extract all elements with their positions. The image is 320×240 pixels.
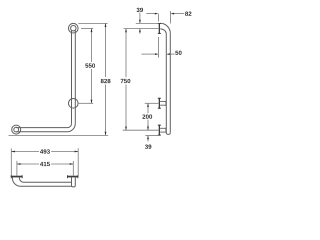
bend outer arc [67, 124, 75, 132]
dim line 39 top shaft lower [139, 29, 141, 34]
arrow 828 down [105, 132, 107, 136]
arrow 39 top down [139, 20, 141, 24]
vertical bar right edge wire [74, 30, 76, 123]
bracket1 clamp edge [165, 101, 167, 106]
dim line 750 upper [125, 29, 127, 77]
dim line 550 upper [91, 29, 93, 63]
left flange outer circle [12, 125, 21, 134]
extension line L2 flange center level [124, 28, 159, 30]
top flange inner circle [71, 26, 76, 31]
label 39 bottom [145, 145, 151, 149]
label 828 [101, 79, 111, 83]
side bar inner bend arc [160, 29, 166, 34]
dim line 415 right [51, 163, 73, 165]
label 50 [175, 51, 181, 55]
top flange outer circle [69, 23, 79, 33]
side bar right edge wire [169, 33, 171, 132]
extension line L1 bar top level [136, 22, 159, 24]
bracket2 stem top [160, 127, 166, 129]
arrow 39 top up [139, 29, 141, 33]
horizontal bar bottom edge [16, 131, 67, 133]
dim line 828 lower [105, 85, 107, 136]
dim line 200 lower [147, 120, 149, 131]
top flange plate side [159, 23, 160, 34]
label 550 [85, 63, 95, 67]
bracket2 plate [159, 125, 160, 136]
top view bar inner bend [19, 178, 71, 183]
top view left plate [11, 176, 23, 178]
dim line 550 lower [91, 69, 93, 103]
arrow 493 left [11, 151, 15, 153]
arrow 750 up [125, 29, 127, 33]
bracket2 clamp edge [165, 128, 167, 133]
arrow 550 up [91, 29, 93, 33]
horizontal bar top edge [16, 127, 67, 129]
dim line 50 left shaft [142, 53, 156, 55]
arrow 750 down [125, 127, 127, 131]
dim line 415 left [17, 163, 39, 165]
label 750 [121, 79, 131, 83]
bracket1 plate [159, 98, 160, 109]
label 82 [185, 12, 191, 16]
dim line 828 upper [105, 23, 107, 77]
dim line 82 left shaft [146, 13, 155, 15]
dim line 750 lower [125, 85, 127, 131]
mid bracket circle [69, 99, 79, 109]
dim line 493 right [51, 151, 78, 153]
extension line 750/200 bottom [123, 129, 159, 131]
side bar left edge wire [165, 34, 167, 133]
side bar bottom cap [166, 133, 170, 135]
label 39 top [137, 8, 143, 12]
top view stub outline [72, 178, 76, 187]
extension line bar outer vertical [170, 11, 172, 24]
extension line 550 bottom [79, 102, 94, 104]
arrow 550 down [91, 100, 93, 104]
vertical bar left edge wire [71, 30, 73, 123]
extension line 39 bottom plate-bottom level [145, 135, 158, 137]
dim line 39 bottom shaft lower [147, 136, 149, 142]
label 415 [40, 162, 50, 166]
dim line 39 bottom shaft upper [147, 124, 149, 130]
left flange inner circle [14, 127, 19, 132]
extension line 415 right [72, 161, 74, 176]
bracket1 stem bottom [160, 104, 166, 106]
dim line 39 top shaft upper [139, 13, 141, 24]
arrow 493 right [75, 151, 79, 153]
dim line 493 left [11, 151, 39, 153]
extension line 200 top [145, 102, 159, 104]
dim line 50 right shaft [170, 53, 175, 55]
arrow 39 bottom up [147, 136, 149, 140]
arrow 200 up [147, 103, 149, 107]
extension line top tangent [78, 22, 107, 24]
extension line 828 bottom [9, 134, 109, 136]
extension line wall top vertical [157, 14, 159, 22]
extension line 415 left [16, 161, 18, 176]
arrow 415 left [17, 163, 21, 165]
arrow 200 down [147, 127, 149, 131]
arrow 50 right-pointing at wall [155, 53, 159, 55]
bend inner arc [68, 124, 72, 128]
extension line 493 right [77, 148, 79, 175]
bracket1 stem top [160, 100, 166, 102]
extension line wall mid vertical [158, 37, 160, 58]
arrow 82 right-pointing at wall [155, 13, 159, 15]
side bar outer bend arc [160, 23, 170, 33]
label 200 [142, 114, 152, 118]
arrow 415 right [70, 163, 74, 165]
extension line 493 left [10, 148, 12, 175]
arrow 82 left-pointing at bar [171, 13, 175, 15]
top view bar outer bend [12, 178, 71, 187]
arrow 828 up [105, 23, 107, 27]
label 493 [40, 149, 50, 153]
dim line 82 right shaft [174, 13, 184, 15]
top view right plate [67, 176, 78, 178]
extension line 550 top circle center [81, 28, 93, 30]
bracket2 stem bottom [160, 131, 166, 133]
dim line 200 upper [147, 103, 149, 113]
arrow 50 left-pointing at bar [166, 53, 170, 55]
